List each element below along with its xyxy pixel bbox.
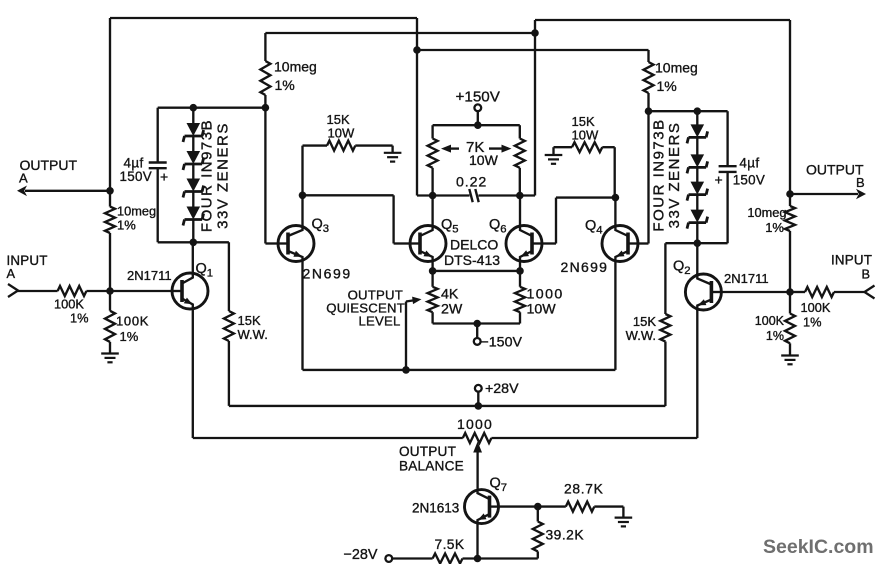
ground (below right 100K): [781, 356, 799, 365]
svg-text:33V ZENERS: 33V ZENERS: [666, 122, 683, 229]
node: input A junction: [106, 287, 114, 295]
transistor Q2 2N1711: [685, 273, 722, 311]
svg-text:10W: 10W: [328, 126, 355, 141]
wire: left zener box top bus y=107.7: [158, 107, 266, 109]
svg-text:2W: 2W: [441, 302, 463, 318]
label: -28V: [344, 547, 378, 563]
wire: +150V stem: [477, 111, 479, 125]
label: +28V: [485, 381, 519, 397]
node: Q6 emitter junction: [516, 267, 524, 275]
label: Q7: [490, 476, 508, 495]
svg-text:1%: 1%: [275, 77, 295, 93]
wire: right outer vertical rail x=790 (top to output B node): [789, 20, 791, 206]
label: 33V ZENERS (left, rotated): [214, 122, 231, 229]
svg-text:2N1711: 2N1711: [724, 271, 769, 286]
label: Q6: [489, 217, 507, 236]
transistor Q3 2N699: [278, 225, 315, 263]
transistor Q1 2N1711: [172, 272, 209, 310]
resistor 100K 1% (right rail to ground): [785, 314, 795, 344]
resistor 7.5K: [433, 554, 463, 564]
terminal: +150V: [474, 104, 481, 111]
label: INPUT A: [7, 253, 48, 281]
wire: Q6 collector to 7K right: [519, 196, 521, 225]
resistor 7K 10W (left half): [428, 125, 438, 195]
zener diode D3 (left chain, 1N973B): [183, 164, 204, 198]
svg-text:DELCO: DELCO: [450, 237, 498, 253]
resistor 100K 1% (input A series): [58, 286, 87, 296]
wire: base lead of Q1: [110, 290, 173, 292]
wire: Q4 collector junction riser: [614, 147, 616, 197]
svg-text:2N699: 2N699: [303, 266, 352, 282]
label: FOUR IN973B (right, rotated): [651, 118, 668, 231]
wire: left rail between 10meg and input A node: [109, 233, 111, 311]
label: FOUR IN973B (left, rotated): [198, 119, 215, 232]
wire: Q7 emitter down to -28V bus: [476, 525, 478, 559]
svg-text:LEVEL: LEVEL: [358, 314, 400, 329]
wire: Q5 base link from Q3 collector junction: [303, 195, 410, 243]
resistor 28.7K: [538, 502, 624, 512]
svg-text:10W: 10W: [572, 128, 599, 143]
resistor 15K W.W. (left): [224, 242, 234, 406]
wire: bus2 (+28V, 15K W.W.) y=405.9: [229, 405, 666, 407]
wire: Q3 collector junction riser: [301, 146, 303, 196]
svg-text:1%: 1%: [657, 78, 677, 94]
wire: Q3 base vertical from left box top: [265, 108, 277, 244]
resistor 100K 1% (input B series): [805, 287, 834, 297]
svg-text:28.7K: 28.7K: [564, 481, 604, 496]
svg-text:10meg: 10meg: [117, 204, 156, 219]
wire: left outer vertical rail x=110 (top to output A node): [109, 18, 111, 207]
svg-text:SeekIC.com: SeekIC.com: [763, 536, 874, 558]
wire: emitter bus between Q5 and Q6: [433, 270, 520, 272]
wire: right box right vertical lower: [726, 172, 728, 243]
node: junction x=535 y=33: [531, 29, 539, 37]
label: 0.22: [456, 174, 487, 190]
svg-text:1%: 1%: [765, 220, 784, 235]
ground (left 15K 10W): [384, 146, 402, 162]
svg-text:39.2K: 39.2K: [546, 527, 585, 542]
svg-text:10meg: 10meg: [655, 60, 698, 76]
wire: Q3 collector up to junction: [301, 195, 303, 224]
label: 2N1613: [412, 501, 459, 516]
wire: Q2 emitter down to balance bus: [696, 311, 698, 439]
label: 7K 10W with arrows: [441, 139, 512, 168]
wire: right rail between 10meg and input B node: [789, 231, 791, 314]
terminal: input B chevron: [865, 286, 875, 299]
label: Q5: [441, 217, 459, 236]
svg-text:1000: 1000: [457, 416, 493, 432]
wire: input B to base node: [790, 291, 805, 293]
label: +150V: [456, 88, 501, 105]
label: 4uf 150V + (right): [715, 156, 766, 188]
svg-text:0.22: 0.22: [456, 174, 487, 190]
zener diode D7 (right chain, 1N973B): [687, 167, 708, 200]
svg-text:+28V: +28V: [485, 381, 519, 397]
node: left zener bottom junction: [190, 239, 198, 247]
svg-text:15K: 15K: [238, 313, 261, 328]
wire: 0.22 bus right segment: [479, 194, 536, 196]
svg-text:1%: 1%: [766, 329, 784, 343]
svg-text:2N1613: 2N1613: [412, 501, 459, 516]
wire: center-right vertical x=535 from top-right rail down to 0.22 bus: [534, 20, 536, 196]
ground (28.7K): [615, 507, 633, 527]
label: 2N1711 (Q2): [724, 271, 769, 286]
node: input B junction: [786, 288, 794, 296]
wire: input A lead: [17, 290, 58, 292]
svg-text:33V ZENERS: 33V ZENERS: [214, 122, 231, 229]
svg-text:DTS-413: DTS-413: [444, 252, 500, 268]
node: left 10meg-side junction: [262, 104, 270, 112]
wire: Q6 emitter to emitter bus: [519, 263, 521, 271]
transistor Q7 2N1613: [465, 489, 500, 525]
resistor 10meg 1% (left rail): [105, 207, 115, 233]
capacitor 0.22 (slanted plates): [469, 189, 478, 202]
resistor 39.2K: [533, 507, 543, 559]
svg-text:−150V: −150V: [481, 334, 523, 350]
wire: output B lead: [790, 193, 858, 195]
wire: right box right vertical upper (to 4uf cap): [726, 111, 728, 166]
svg-text:2N699: 2N699: [561, 259, 609, 275]
wire: right rail to ground: [789, 343, 791, 355]
svg-text:INPUT: INPUT: [831, 253, 872, 268]
wire: -150V bottom bus: [433, 322, 520, 324]
svg-text:100K: 100K: [54, 297, 84, 312]
label: 10meg 1% (right top): [655, 60, 698, 95]
wire: Q4 base vertical from right box top: [639, 111, 649, 243]
wire: Q4 collector up to junction: [614, 198, 616, 225]
label: Q3: [312, 217, 330, 236]
resistor 10meg 1% (right top): [644, 50, 654, 111]
label: 4uf 150V + (left): [120, 156, 169, 185]
svg-text:10W: 10W: [469, 152, 499, 168]
svg-text:4µf: 4µf: [739, 156, 759, 171]
svg-text:100K: 100K: [755, 314, 785, 328]
wire: Q5 emitter to emitter bus: [431, 263, 433, 271]
node: 7K right bottom junction: [516, 192, 524, 200]
zener diode D6 (right chain, 1N973B): [687, 137, 708, 173]
svg-text:A: A: [19, 171, 28, 186]
wire: input A to base node: [86, 290, 110, 292]
transistor Q5 DELCO DTS-413: [410, 225, 447, 263]
label: 4K 2W: [441, 287, 463, 318]
svg-text:FOUR IN973B: FOUR IN973B: [198, 119, 215, 232]
svg-text:10meg: 10meg: [747, 205, 786, 220]
wire: Q4 emitter down to wire1: [614, 263, 616, 370]
svg-text:100K: 100K: [116, 314, 149, 329]
zener diode D1 (left chain, 1N973B): [183, 108, 204, 142]
label: 100K 1% (right rail): [755, 314, 785, 343]
node: -150V junction: [473, 320, 481, 328]
wire: top-left rail from output A rail to center vertical: [110, 17, 417, 19]
svg-text:OUTPUT: OUTPUT: [399, 444, 456, 459]
wire: top-right rail y=20 from x=535 to right outer rail: [535, 19, 790, 21]
svg-text:100K: 100K: [801, 300, 831, 315]
wire: -28V bus left segment: [392, 557, 433, 559]
resistor 7K 10W (right half): [515, 125, 525, 195]
terminal: -28V: [385, 555, 392, 562]
svg-text:A: A: [7, 266, 16, 281]
label: 2N699 (Q3): [303, 266, 352, 282]
label: DELCO DTS-413: [444, 237, 500, 269]
wire: Q2 collector to right zener bottom: [696, 243, 698, 273]
watermark: SeekIC.com: [763, 536, 874, 558]
label: 2N699 (Q4): [561, 259, 609, 275]
node: right box left junction: [645, 107, 653, 115]
label: 7.5K: [435, 537, 465, 552]
wire: right zener box bottom bus y=243.2: [665, 242, 727, 244]
svg-text:1%: 1%: [117, 218, 136, 233]
transistor Q6 DELCO DTS-413: [506, 225, 543, 263]
svg-text:2N1711: 2N1711: [127, 268, 172, 283]
wire: cross wire y=50 from x=417 to right 10meg: [417, 49, 649, 51]
wire: center-left vertical x=417 from top rail down to 0.22 bus: [416, 18, 418, 196]
resistor 1000 10W: [515, 271, 525, 324]
node: right zener bottom junction (Q2 collector): [694, 239, 702, 247]
label: 10meg 1% (left rail): [117, 204, 156, 233]
wire: left box left vertical lower: [157, 168, 159, 242]
label: OUTPUT BALANCE: [399, 444, 464, 474]
svg-text:10W: 10W: [527, 302, 557, 318]
zener diode D2 (left chain, 1N973B): [183, 136, 204, 170]
svg-text:+: +: [715, 172, 723, 188]
wire: output A lead: [25, 190, 110, 192]
resistor 15K 10W (left): [303, 141, 393, 151]
svg-text:+: +: [160, 169, 168, 185]
node: wiper to wire1 junction: [402, 366, 410, 374]
wire: Q1 emitter down to balance bus: [192, 310, 194, 439]
wire: 0.22 bus left segment: [417, 194, 470, 196]
potentiometer 1000 (output balance): [463, 433, 492, 443]
resistor 10meg 1% (left top): [260, 33, 270, 108]
label: 2N1711 (Q1): [127, 268, 172, 283]
capacitor 4uf 150V (right): [719, 166, 737, 172]
transistor Q4 2N699: [602, 225, 639, 263]
label: 33V ZENERS (right, rotated): [666, 122, 683, 229]
wire: 7K bridge top bus: [433, 124, 520, 126]
wire: left zener chain bottom lead: [192, 220, 194, 243]
terminal: input A chevron: [8, 284, 18, 297]
wire: right zener chain bottom lead: [696, 223, 698, 244]
svg-text:4K: 4K: [441, 287, 459, 303]
svg-text:B: B: [856, 175, 865, 190]
svg-text:+150V: +150V: [456, 88, 501, 105]
node: right zener top junction: [694, 107, 702, 115]
wire: balance pot wiper to Q7 collector: [473, 442, 482, 489]
wire: base lead of Q2: [722, 291, 791, 293]
wire: left zener box bottom bus y=242.3: [158, 241, 229, 243]
wire: cross wire y=33 from left 10meg to center-right vertical: [265, 32, 535, 34]
wire: Q1 collector to left zener bottom: [192, 242, 194, 272]
wire: Q5 collector to 7K left: [431, 196, 433, 225]
label: Q1: [196, 261, 214, 280]
label: 15K W.W. (right): [626, 314, 657, 343]
label: 1000 (balance pot): [457, 416, 493, 432]
wire: -150V stem: [476, 324, 478, 339]
node: Q7 base junction: [534, 503, 542, 511]
svg-text:W.W.: W.W.: [626, 328, 656, 343]
node: 7K left bottom junction: [429, 192, 437, 200]
terminal: +28V: [475, 385, 482, 392]
wire: bus1 (Q3/Q4 emitters) y=369.9: [303, 369, 616, 371]
wire: input B lead: [834, 291, 865, 293]
terminal: -150V: [474, 338, 481, 345]
wire: +28V stem: [477, 391, 479, 406]
label: 28.7K: [564, 481, 604, 496]
svg-text:−28V: −28V: [344, 547, 378, 563]
node: Q4 collector junction: [612, 194, 620, 202]
ground (right 15K 10W): [545, 147, 563, 164]
node: +150V junction: [474, 121, 482, 129]
label: 10meg 1% (left top): [274, 59, 317, 94]
resistor 100K 1% (left rail to ground): [105, 311, 115, 342]
wire: 4K wiper arm: [406, 297, 422, 370]
node: +28V junction: [475, 402, 483, 410]
label: OUTPUT QUIESCENT LEVEL: [326, 288, 405, 329]
potentiometer 4K 2W: [428, 271, 438, 324]
svg-text:1%: 1%: [803, 315, 822, 330]
node: Q5 emitter junction: [429, 267, 437, 275]
node: Q7 emitter junction on -28V bus: [474, 555, 482, 563]
label: 1000 10W: [527, 287, 564, 318]
svg-text:150V: 150V: [120, 169, 152, 184]
label: OUTPUT A: [19, 157, 78, 186]
svg-text:15K: 15K: [633, 314, 656, 329]
label: 100K 1% (input A series): [54, 297, 89, 326]
zener diode D4 (left chain, 1N973B): [183, 192, 204, 226]
label: OUTPUT B: [806, 162, 865, 191]
resistor 15K W.W. (right): [660, 243, 670, 406]
svg-text:1%: 1%: [70, 311, 89, 326]
label: 15K 10W (right): [572, 114, 599, 143]
wire: right zener box top bus y=111.2: [649, 110, 728, 112]
wire: left rail to ground: [109, 342, 111, 354]
label: Q2: [673, 259, 691, 278]
svg-text:1%: 1%: [120, 329, 139, 344]
arrow: output B arrowhead: [856, 189, 866, 200]
wire: Q3 emitter down to wire1: [301, 263, 303, 370]
label: 100K 1% (left rail): [116, 314, 149, 345]
label: INPUT B: [831, 253, 872, 282]
resistor 15K 10W (right): [554, 142, 615, 152]
node: output A junction: [106, 187, 114, 195]
capacitor 4uf 150V (left): [149, 163, 167, 169]
label: 39.2K: [546, 527, 585, 542]
node: junction x=417 y=50: [413, 46, 421, 54]
label: 15K 10W (left): [327, 112, 355, 141]
arrow: output A arrowhead: [17, 186, 27, 197]
svg-text:W.W.: W.W.: [238, 327, 268, 342]
label: 15K W.W. (left): [238, 313, 268, 342]
svg-text:150V: 150V: [733, 173, 765, 188]
svg-text:7.5K: 7.5K: [435, 537, 465, 552]
wire: -28V bus right segment: [463, 557, 538, 559]
zener diode D8 (right chain, 1N973B): [687, 195, 708, 229]
node: output B junction: [786, 190, 794, 198]
svg-text:10meg: 10meg: [274, 59, 317, 75]
node: left zener top junction: [190, 104, 198, 112]
svg-text:OUTPUT: OUTPUT: [20, 157, 78, 173]
wire: left box left vertical upper (to 4uf cap): [157, 108, 159, 163]
wire: Q6 base link from Q4 collector junction: [543, 198, 616, 244]
wire: bus3 right segment: [491, 437, 697, 439]
ground (below left 100K): [101, 354, 119, 363]
label: 10meg 1% (right rail): [747, 205, 786, 235]
zener diode D5 (right chain, 1N973B): [687, 111, 708, 143]
svg-text:B: B: [862, 267, 871, 282]
label: 100K 1% (input B series): [801, 300, 831, 330]
wire: bus3 (output balance) left segment: [193, 437, 463, 439]
svg-text:1000: 1000: [527, 287, 564, 303]
wire: Q7 base lead to divider node: [499, 505, 538, 507]
resistor 10meg 1% (right rail): [785, 206, 795, 231]
label: -150V: [481, 334, 523, 350]
label: Q4: [585, 218, 603, 237]
svg-text:BALANCE: BALANCE: [399, 459, 464, 474]
node: Q3 collector junction: [299, 192, 307, 200]
